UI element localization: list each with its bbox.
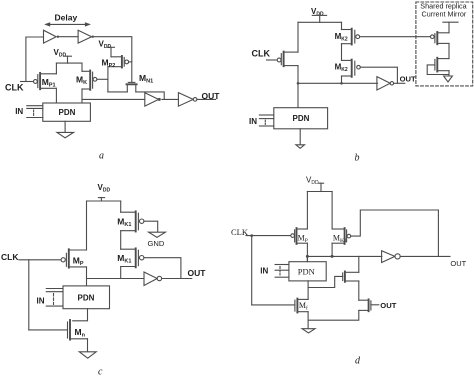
svg-text:c: c bbox=[98, 367, 103, 376]
node dynamic wire to inverter bbox=[82, 98, 145, 100]
wire PDN bottom to Mn bbox=[73, 309, 88, 321]
wire IN inputs bbox=[259, 115, 273, 126]
node junction dot bbox=[340, 82, 343, 85]
wire MK2 gate to current mirror bbox=[360, 36, 431, 38]
wire MK1 gate feedback from OUT bbox=[351, 210, 439, 256]
svg-text:d: d bbox=[355, 356, 361, 367]
wire NMOS source to ground bbox=[448, 71, 450, 76]
wire CLK bbox=[246, 235, 291, 237]
wire MP drain to node bbox=[306, 243, 308, 262]
wire dynamic node bbox=[298, 82, 378, 84]
svg-text:IN: IN bbox=[249, 117, 257, 126]
wire CLK bbox=[19, 259, 61, 261]
transistor MK1 (upper keeper) bbox=[117, 211, 144, 231]
wire MK1 lower gate feedback bbox=[144, 258, 181, 279]
wire MK1 gate to GND bbox=[144, 221, 158, 232]
wire MK2 to MK2b bbox=[341, 44, 343, 61]
node junction dot bbox=[331, 255, 334, 258]
svg-text:IN: IN bbox=[15, 107, 23, 116]
wire mirror PMOS drain to NMOS bbox=[448, 43, 450, 58]
svg-text:MK2: MK2 bbox=[335, 32, 348, 43]
transistor MN1 (pass) bbox=[127, 73, 154, 92]
svg-text:OUT: OUT bbox=[450, 259, 466, 268]
svg-text:MN1: MN1 bbox=[139, 73, 153, 85]
wire VDD rail bbox=[87, 200, 121, 202]
svg-text:VDD: VDD bbox=[98, 183, 111, 194]
wire CLK bbox=[267, 59, 278, 61]
node junction dot bbox=[306, 255, 309, 258]
svg-text:MP1: MP1 bbox=[42, 77, 56, 89]
wire VDD rail bbox=[307, 191, 332, 193]
svg-text:VDD: VDD bbox=[306, 175, 319, 186]
wire Mf source to ground bbox=[307, 312, 309, 329]
wire rail to MK2 bbox=[341, 22, 343, 29]
FIGURE D bbox=[231, 175, 467, 366]
wire PDN bottom to Mf bbox=[307, 281, 309, 300]
wire dynamic node bbox=[307, 255, 381, 257]
transistor MP (precharge) bbox=[291, 228, 308, 244]
wire MK1 drain to node bbox=[331, 243, 333, 256]
wire OUT bbox=[197, 98, 216, 100]
wire MK2b gate feedback from OUT bbox=[360, 67, 397, 83]
delay measurement arrow bbox=[44, 22, 91, 26]
svg-text:b: b bbox=[355, 153, 360, 164]
wire delay output to MP2/MN1 gates bbox=[95, 37, 132, 83]
wire Mclk drain to PDN bbox=[297, 66, 299, 108]
wire IN inputs bbox=[27, 106, 43, 118]
ground (figure b) bbox=[296, 129, 305, 149]
transistor MK (keeper) bbox=[76, 71, 97, 90]
wire CLK up to delay input bbox=[26, 37, 44, 82]
wire MK1 lower drain to node bbox=[120, 267, 122, 279]
wire rail to Mclk source bbox=[297, 22, 299, 52]
wire node down to M2 bbox=[358, 256, 360, 272]
svg-text:OUT: OUT bbox=[202, 91, 221, 101]
ground GND symbol bbox=[148, 232, 166, 248]
svg-text:IN: IN bbox=[37, 296, 45, 305]
inverter I4 bbox=[178, 93, 197, 107]
wire corner to MN1 bbox=[108, 91, 127, 93]
wire CLK horizontal bbox=[21, 81, 34, 83]
wire MK gate to MP2 drain bbox=[97, 78, 108, 80]
svg-text:PDN: PDN bbox=[293, 114, 310, 123]
wire rail to MK1 source bbox=[331, 192, 333, 230]
wire rail to MK1 upper bbox=[120, 201, 122, 212]
transistor MP1 bbox=[34, 73, 57, 89]
dashed box shared replica current mirror bbox=[416, 2, 473, 86]
svg-text:OUT: OUT bbox=[400, 75, 416, 84]
wire rail to MP1 source bbox=[55, 63, 57, 74]
FIGURE B bbox=[249, 2, 473, 164]
ground (figure c) bbox=[79, 352, 96, 358]
svg-text:GND: GND bbox=[148, 239, 165, 248]
transistor mirror PMOS bbox=[431, 32, 450, 44]
svg-text:MP: MP bbox=[73, 255, 84, 267]
wire Mn source to ground bbox=[87, 339, 89, 352]
node junction dot bbox=[297, 82, 300, 85]
svg-text:MK: MK bbox=[76, 75, 87, 87]
node junction dot CLK bbox=[250, 234, 253, 237]
wire MP2 drain down bbox=[107, 67, 109, 92]
transistor mirror NMOS (diode connected) bbox=[427, 58, 449, 75]
svg-text:VDD: VDD bbox=[99, 39, 112, 50]
svg-text:CLK: CLK bbox=[252, 49, 271, 59]
wire MP1 drain to PDN bbox=[55, 88, 57, 103]
wire rail to MP source bbox=[86, 201, 88, 250]
wire MK drain to PDN bbox=[81, 89, 83, 103]
wire rail to MK source bbox=[81, 63, 83, 71]
power VDD bbox=[311, 7, 327, 22]
wire I1 to I2 bbox=[59, 36, 78, 38]
ground (figure a) bbox=[57, 121, 74, 138]
ground (figure d) bbox=[302, 329, 315, 333]
transistor MK2 (upper keeper) bbox=[335, 29, 360, 45]
transistor MP2 bbox=[102, 56, 132, 69]
wire node to PDN top bbox=[306, 256, 308, 261]
svg-text:CLK: CLK bbox=[1, 252, 19, 262]
svg-text:MP: MP bbox=[298, 233, 308, 244]
PDN block bbox=[274, 108, 328, 129]
PDN block bbox=[289, 262, 326, 281]
transistor M3 (OUT gated NMOS) bbox=[359, 299, 397, 311]
wire CLK down to Mf bbox=[251, 236, 253, 305]
power VDD (MP2) bbox=[99, 39, 115, 57]
svg-text:Delay: Delay bbox=[55, 13, 78, 23]
inverter (figure b) bbox=[377, 77, 405, 90]
transistor M2 (middle NMOS) bbox=[308, 272, 359, 288]
transistor MP (precharge) bbox=[61, 249, 86, 267]
wire I3 to I4 bbox=[162, 98, 179, 100]
inverter I3 bbox=[145, 93, 161, 106]
wire MP drain to PDN bbox=[86, 267, 88, 286]
wire VDD rail bbox=[56, 62, 82, 64]
transistor MK1 (lower keeper) bbox=[117, 248, 144, 267]
FIGURE A bbox=[5, 13, 220, 162]
transistor MK2b (lower keeper) bbox=[335, 60, 361, 77]
wire dynamic node to inverter bbox=[87, 278, 145, 280]
inverter (figure d) bbox=[382, 251, 450, 263]
svg-text:VDD: VDD bbox=[54, 48, 67, 59]
wire IN inputs bbox=[46, 289, 63, 307]
svg-text:MK1: MK1 bbox=[117, 217, 131, 229]
wire VDD rail bbox=[298, 21, 342, 23]
svg-text:Current Mirror: Current Mirror bbox=[422, 10, 467, 19]
FIGURE C bbox=[1, 183, 206, 376]
svg-text:OUT: OUT bbox=[188, 268, 207, 278]
transistor Mf (footer) bbox=[252, 299, 308, 313]
wire rail to MP source bbox=[306, 192, 308, 230]
svg-text:MK1: MK1 bbox=[117, 253, 131, 265]
svg-text:Mf: Mf bbox=[299, 301, 308, 312]
svg-text:IN: IN bbox=[260, 266, 268, 275]
PDN block bbox=[63, 286, 110, 309]
svg-text:PDN: PDN bbox=[59, 108, 76, 117]
power VDD (left) bbox=[54, 48, 72, 63]
svg-text:OUT: OUT bbox=[380, 301, 396, 310]
transistor MK1 (keeper) bbox=[332, 228, 351, 244]
power bar (mirror VDD) bbox=[443, 22, 458, 33]
power VDD bbox=[306, 175, 324, 191]
power VDD bbox=[98, 183, 111, 201]
buffer inverter I2 (delay) bbox=[78, 30, 94, 43]
wire IN inputs bbox=[275, 265, 289, 278]
svg-text:PDN: PDN bbox=[78, 293, 95, 302]
transistor Mn (footer) bbox=[29, 320, 88, 340]
svg-text:PDN: PDN bbox=[298, 266, 315, 276]
transistor Mclk (precharge) bbox=[277, 52, 298, 67]
svg-text:CLK: CLK bbox=[5, 83, 24, 93]
wire M3 source to ground rail bbox=[308, 310, 359, 320]
buffer inverter I1 (delay) bbox=[44, 30, 60, 43]
ground (mirror) bbox=[444, 76, 453, 82]
wire CLK down to Mn bbox=[28, 260, 30, 330]
wire MK2b drain to node bbox=[341, 76, 343, 83]
wire MK1 upper to lower bbox=[120, 231, 122, 250]
PDN block bbox=[43, 103, 91, 121]
svg-text:MK2: MK2 bbox=[335, 63, 348, 74]
wire MN1 to inverter output node bbox=[136, 92, 164, 100]
svg-text:a: a bbox=[99, 151, 104, 162]
wire M2 source to M3 drain bbox=[358, 281, 360, 300]
svg-text:Mn: Mn bbox=[75, 327, 86, 339]
inverter (figure c) bbox=[144, 272, 192, 286]
